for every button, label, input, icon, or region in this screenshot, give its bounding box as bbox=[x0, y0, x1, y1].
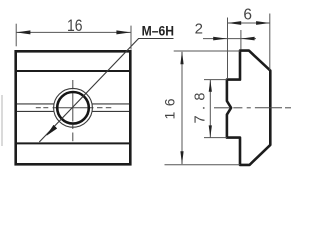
leader line from M-6H through hole bbox=[39, 39, 138, 143]
dim 16 top: right arrowhead bbox=[116, 30, 130, 34]
leader underline below M-6H bbox=[138, 38, 173, 40]
dim 2: right arrowhead (outside) bbox=[241, 37, 255, 41]
dim 6: right extension line bbox=[269, 14, 271, 71]
dim 7.8: top arrowhead bbox=[209, 80, 212, 92]
side view: T profile outline bbox=[227, 51, 270, 165]
dim 7.8: dimension line bbox=[209, 80, 211, 138]
front view: thread major diameter circle bbox=[54, 88, 93, 127]
dim 16 right: bottom arrowhead bbox=[180, 151, 183, 165]
dim 6: left extension line bbox=[227, 18, 229, 80]
front view: top step edge line bbox=[16, 70, 131, 72]
cropped stray line at far left bbox=[1, 95, 3, 146]
dim 6: right arrowhead bbox=[256, 21, 270, 25]
svg-text:16: 16 bbox=[162, 93, 178, 120]
dim 16 right: top arrowhead bbox=[180, 51, 183, 65]
front view: square body outline bbox=[16, 51, 131, 164]
front view: vertical centerline bbox=[72, 80, 74, 141]
svg-text:16: 16 bbox=[67, 17, 83, 35]
dim 2: right extension line bbox=[240, 30, 242, 50]
projection line top (profile top to dim 16 right) bbox=[174, 50, 240, 52]
leader arrowhead bbox=[47, 125, 57, 135]
side view: horizontal centerline bbox=[214, 107, 291, 109]
dim 6: dimension line bbox=[228, 22, 270, 24]
dim 7.8: bottom arrowhead bbox=[209, 125, 212, 137]
dim 2: dimension line bbox=[203, 38, 256, 40]
dim 7.8: top extension line bbox=[204, 79, 227, 81]
front view: notch projection line upper bbox=[17, 103, 129, 105]
front view: tapped hole inner circle bbox=[57, 92, 89, 124]
dim 16 top: right extension line bbox=[130, 26, 132, 50]
svg-text:2: 2 bbox=[195, 21, 203, 38]
front view: horizontal centerline bbox=[36, 107, 112, 109]
svg-text:M–6H: M–6H bbox=[142, 23, 174, 39]
svg-text:7.8: 7.8 bbox=[192, 87, 208, 123]
dim 16 top: left arrowhead bbox=[16, 30, 30, 34]
dim 6: left arrowhead bbox=[228, 21, 242, 25]
dim 16 right: dimension line bbox=[181, 52, 183, 164]
front view: bottom step edge line bbox=[16, 142, 131, 144]
projection line bottom (profile bottom to dim 16 right) bbox=[165, 164, 241, 166]
front view: notch projection line lower bbox=[17, 110, 129, 112]
dim 7.8: bottom extension line bbox=[204, 137, 227, 139]
dim 16 top: left extension line bbox=[15, 24, 17, 47]
svg-text:6: 6 bbox=[243, 7, 252, 24]
dim 2: left arrowhead (outside) bbox=[213, 37, 227, 41]
dim 16 top: dimension line bbox=[16, 31, 130, 33]
